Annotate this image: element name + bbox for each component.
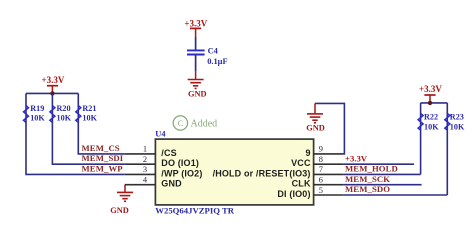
svg-text:GND: GND (306, 123, 325, 132)
svg-text:MEM_WP: MEM_WP (82, 163, 124, 173)
resistor R19 (24, 104, 46, 123)
pin 9 stub (314, 153, 344, 155)
svg-text:7: 7 (319, 165, 323, 174)
svg-text:10K: 10K (30, 113, 45, 122)
svg-text:GND: GND (161, 179, 182, 189)
wire right rail horizontal (421, 102, 448, 104)
svg-text:/HOLD or /RESET(IO3): /HOLD or /RESET(IO3) (213, 168, 311, 178)
svg-text:Added: Added (191, 118, 218, 129)
wire R19 vertical (26, 93, 125, 174)
resistor R21 (76, 104, 98, 123)
svg-text:2: 2 (143, 155, 147, 164)
svg-text:+3.3V: +3.3V (345, 153, 368, 163)
svg-text:MEM_HOLD: MEM_HOLD (345, 164, 398, 174)
resistor R22 (418, 113, 439, 132)
wire pin8 +3.3V stub (344, 163, 414, 165)
power +3.3V top (C4 rail) (184, 19, 207, 38)
wire R22 vertical (420, 103, 422, 174)
svg-text:MEM_SDO: MEM_SDO (345, 184, 390, 194)
svg-text:VCC: VCC (291, 158, 311, 168)
svg-text:10K: 10K (57, 113, 72, 122)
pin 8 stub (314, 163, 344, 165)
svg-text:MEM_CS: MEM_CS (82, 143, 120, 153)
svg-text:+3.3V: +3.3V (419, 84, 442, 94)
power +3.3V left rail (41, 75, 64, 94)
ground under pin 4 (110, 185, 133, 215)
svg-text:MEM_SDI: MEM_SDI (82, 153, 124, 163)
ground GND right (pin 9) (306, 103, 325, 132)
svg-text:DO (IO1): DO (IO1) (161, 158, 199, 168)
svg-text:8: 8 (319, 155, 323, 164)
svg-text:R19: R19 (30, 104, 44, 113)
power +3.3V right rail (419, 84, 442, 103)
svg-text:+3.3V: +3.3V (41, 75, 64, 85)
IC U4 body (155, 139, 313, 205)
pin 2 stub (125, 163, 156, 165)
svg-text:9: 9 (319, 145, 323, 154)
annotation circle C Added (173, 116, 217, 130)
svg-text:C: C (178, 119, 183, 128)
svg-text:5: 5 (319, 186, 323, 195)
svg-text:R22: R22 (424, 113, 438, 122)
svg-text:DI (IO0): DI (IO0) (277, 189, 310, 199)
wire C4 bottom (195, 55, 197, 72)
svg-text:R20: R20 (57, 104, 71, 113)
wire R21 vertical (78, 93, 125, 153)
wire MEM_SCK (344, 184, 422, 186)
svg-text:9: 9 (305, 148, 310, 158)
svg-text:10K: 10K (424, 122, 439, 131)
pin 1 stub (125, 153, 156, 155)
junction left rail (50, 91, 54, 95)
svg-text:10K: 10K (82, 113, 97, 122)
wire pin9 to ground loop (315, 103, 344, 153)
pin 7 stub (314, 173, 344, 175)
svg-text:4: 4 (143, 176, 148, 185)
pin 5 stub (314, 194, 344, 196)
svg-text:10K: 10K (450, 122, 465, 131)
wire R23 vertical (446, 103, 448, 195)
resistor R23 (445, 113, 465, 132)
wire MEM_SDO (344, 194, 448, 196)
junction right rail (428, 101, 432, 105)
svg-text:GND: GND (188, 89, 207, 98)
ground GND top (188, 72, 207, 99)
svg-text:1: 1 (143, 145, 147, 154)
wire C4 top (195, 37, 197, 50)
svg-text:/CS: /CS (161, 148, 176, 158)
pin 4 stub (125, 184, 156, 186)
svg-text:GND: GND (110, 206, 129, 215)
svg-text:CLK: CLK (292, 179, 311, 189)
svg-text:R21: R21 (82, 104, 96, 113)
capacitor C4 (187, 47, 228, 66)
resistor R20 (50, 104, 72, 123)
svg-text:C4: C4 (208, 47, 219, 56)
wire MEM_HOLD (344, 173, 421, 175)
svg-text:+3.3V: +3.3V (184, 19, 207, 29)
svg-text:0.1µF: 0.1µF (207, 57, 227, 66)
svg-text:/WP (IO2): /WP (IO2) (161, 168, 202, 178)
pin 3 stub (125, 173, 156, 175)
svg-text:R23: R23 (450, 113, 464, 122)
svg-text:MEM_SCK: MEM_SCK (345, 174, 390, 184)
pin 6 stub (314, 184, 344, 186)
svg-text:6: 6 (319, 176, 323, 185)
svg-text:U4: U4 (155, 129, 166, 138)
svg-text:3: 3 (143, 165, 147, 174)
svg-text:W25Q64JVZPIQ TR: W25Q64JVZPIQ TR (155, 206, 234, 216)
wire left rail horizontal (26, 92, 78, 94)
wire R20 vertical (52, 93, 124, 164)
